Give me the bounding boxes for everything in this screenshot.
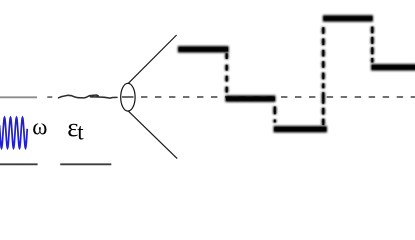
svg-text:ω: ω	[32, 115, 47, 140]
svg-text:t: t	[77, 119, 84, 144]
